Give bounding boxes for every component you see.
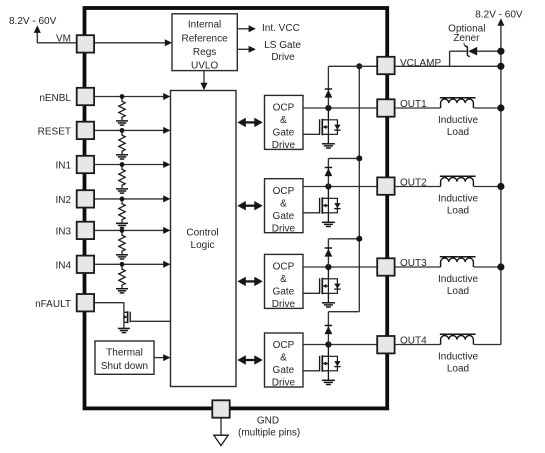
transistor Q3 low-side FET: [327, 267, 329, 279]
pin VM: [77, 35, 94, 52]
svg-text:UVLO: UVLO: [191, 60, 218, 71]
wire OCP ch2 to OUT2 pin: [303, 186, 377, 188]
body diode of Q1: [328, 120, 337, 135]
wire RESET pin to Control Logic: [94, 129, 166, 131]
node rail branch ch2: [356, 155, 362, 161]
ground for nFAULT FET: [118, 327, 130, 329]
svg-text:Drive: Drive: [272, 223, 296, 234]
arrow Internal Reference to Int. VCC: [237, 28, 250, 30]
ground for Q4 source: [322, 379, 335, 381]
pin IN4: [77, 256, 94, 273]
wire VM pin to Internal Reference Regs: [94, 42, 165, 44]
pin IN2: [77, 190, 94, 207]
block: OCP & Gate Drive channel 2: [265, 179, 304, 233]
wire load ch2 to right rail: [474, 186, 501, 188]
transistor Q1 low-side FET: [327, 108, 329, 120]
wire OUT2 to inductive load: [395, 186, 441, 188]
svg-text:OUT1: OUT1: [400, 99, 427, 110]
wire OCP ch1 to FET gate: [303, 133, 320, 135]
pull-down resistor on nENBL: [119, 97, 125, 121]
body diode of Q4: [328, 356, 337, 371]
wire Q4 source to ground: [327, 371, 329, 380]
node OUT2 internal junction: [325, 183, 331, 189]
wire nENBL pin to Control Logic: [94, 96, 166, 98]
wire supply to VM with up arrow: [36, 32, 38, 43]
wire IN4 pin to Control Logic: [94, 263, 166, 265]
wire IN2 pin to Control Logic: [94, 198, 166, 200]
wire right supply rail with up arrow: [497, 18, 504, 26]
block: Internal Reference Regs UVLO: [172, 14, 237, 71]
svg-text:Inductive: Inductive: [438, 274, 478, 285]
wire IN1 pin to Control Logic: [94, 164, 166, 166]
bidirectional arrow Control Logic / OCP channel 2: [243, 205, 257, 207]
svg-text:OUT4: OUT4: [400, 336, 427, 347]
ground for RESET resistor: [116, 154, 128, 156]
node rail branch ch3: [356, 236, 362, 242]
svg-text:Inductive: Inductive: [438, 352, 478, 363]
node IN2 junction: [120, 197, 125, 202]
node load ch3 / rail: [497, 263, 504, 270]
svg-text:RESET: RESET: [38, 127, 71, 138]
pull-down resistor on IN2: [119, 199, 125, 223]
wire OCP ch3 to OUT3 pin: [303, 266, 377, 268]
pin GND: [212, 400, 229, 417]
svg-text:8.2V - 60V: 8.2V - 60V: [475, 10, 523, 21]
svg-text:Gate: Gate: [273, 128, 295, 139]
pin IN1: [77, 156, 94, 173]
ground for IN3 resistor: [116, 254, 128, 256]
wire VCLAMP pin to right rail: [395, 65, 501, 67]
wire Q3 source to ground: [327, 293, 329, 302]
node nENBL junction: [120, 94, 125, 99]
wire Q2 source to ground: [327, 213, 329, 222]
wire VCLAMP rail branch ch4: [328, 311, 359, 313]
wire GND pin down: [220, 418, 222, 436]
svg-text:8.2V - 60V: 8.2V - 60V: [9, 16, 57, 27]
wire Control Logic to nFAULT FET gate: [130, 320, 170, 322]
svg-text:Int. VCC: Int. VCC: [262, 23, 300, 34]
node load ch2 / rail: [497, 183, 504, 190]
block: OCP & Gate Drive channel 3: [265, 254, 304, 308]
svg-text:Zener: Zener: [453, 33, 480, 44]
node OUT1 internal junction: [325, 105, 331, 111]
svg-text:OCP: OCP: [273, 103, 295, 114]
block: OCP & Gate Drive channel 4: [265, 333, 304, 387]
svg-text:OUT3: OUT3: [400, 258, 427, 269]
pin RESET: [77, 122, 94, 139]
svg-text:Reference: Reference: [182, 33, 229, 44]
ground for IN4 resistor: [116, 288, 128, 290]
node OUT4 internal junction: [325, 341, 331, 347]
inductor L3: [441, 258, 474, 267]
svg-text:Gate: Gate: [273, 365, 295, 376]
svg-text:&: &: [280, 274, 287, 285]
svg-text:Drive: Drive: [272, 378, 296, 389]
block: Control Logic: [171, 91, 237, 387]
inductor L2: [441, 178, 474, 187]
pin OUT3: [377, 258, 394, 275]
bidirectional arrow Control Logic / OCP channel 1: [243, 121, 257, 123]
node rail at VCLAMP line: [356, 63, 362, 69]
wire OCP ch2 to FET gate: [303, 212, 320, 214]
body diode of Q3: [328, 279, 337, 294]
svg-text:OUT2: OUT2: [400, 178, 427, 189]
inductor L1: [441, 99, 474, 108]
diode D2 symbol: [325, 167, 332, 169]
pin VCLAMP: [377, 57, 394, 74]
svg-text:OCP: OCP: [273, 262, 295, 273]
wire load ch1 to right rail: [474, 107, 501, 109]
svg-text:Inductive: Inductive: [438, 115, 478, 126]
wire zener branch: [449, 51, 451, 66]
ground for Q2 source: [322, 221, 335, 223]
wire load ch3 to right rail: [474, 266, 501, 268]
pull-down resistor on IN4: [119, 264, 125, 288]
pin IN3: [77, 222, 94, 239]
node VCLAMP / rail: [497, 63, 504, 70]
node IN3 junction: [120, 228, 125, 233]
svg-text:IN2: IN2: [55, 195, 71, 206]
svg-text:Load: Load: [447, 127, 469, 138]
wire nFAULT FET source to ground: [123, 322, 125, 328]
wire Q1 source to ground: [327, 134, 329, 143]
wire nFAULT pin to open-drain FET: [94, 302, 124, 304]
ground for IN2 resistor: [116, 222, 128, 224]
block: OCP & Gate Drive channel 1: [265, 95, 304, 149]
wire VCLAMP line inside: [328, 65, 377, 67]
svg-text:Control: Control: [186, 228, 218, 239]
diode D3 symbol: [325, 247, 332, 249]
svg-text:IN1: IN1: [55, 161, 71, 172]
svg-text:OCP: OCP: [273, 186, 295, 197]
arrow Internal Reference to Control Logic: [203, 71, 205, 85]
pin nFAULT: [77, 294, 94, 311]
block: Thermal Shut down: [95, 341, 154, 374]
pin nENBL: [77, 88, 94, 105]
svg-text:LS Gate: LS Gate: [264, 40, 301, 51]
inductor L4: [441, 336, 474, 345]
wire OUT4 to inductive load: [395, 344, 441, 346]
wire OCP ch1 to OUT1 pin: [303, 107, 377, 109]
svg-text:&: &: [280, 198, 287, 209]
ground for Q1 source: [322, 143, 335, 145]
svg-text:Thermal: Thermal: [106, 348, 143, 359]
wire VCLAMP rail branch ch3: [328, 238, 359, 240]
svg-text:IN4: IN4: [55, 261, 71, 272]
svg-text:Load: Load: [447, 364, 469, 375]
svg-text:VCLAMP: VCLAMP: [400, 58, 441, 69]
ground for nENBL resistor: [116, 120, 128, 122]
svg-text:VM: VM: [56, 34, 71, 45]
svg-text:OCP: OCP: [273, 340, 295, 351]
svg-text:Gate: Gate: [273, 211, 295, 222]
transistor Q5 nFAULT open-drain FET: [123, 312, 125, 322]
IC device outline U1: [85, 8, 388, 408]
svg-text:Drive: Drive: [271, 52, 295, 63]
svg-text:Inductive: Inductive: [438, 194, 478, 205]
svg-text:Load: Load: [447, 286, 469, 297]
ground for Q3 source: [322, 302, 335, 304]
wire OCP ch4 to OUT4 pin: [303, 344, 377, 346]
svg-text:(multiple pins): (multiple pins): [238, 427, 300, 438]
pin OUT1: [377, 99, 394, 116]
wire IN3 pin to Control Logic: [94, 229, 166, 231]
ground symbol (chassis) for GND pin: [214, 435, 228, 445]
wire OCP ch4 to FET gate: [303, 370, 320, 372]
arrow Thermal Shut down to Control Logic: [154, 357, 166, 359]
diode D4 symbol: [325, 325, 332, 327]
arrow Internal Reference to LS Gate Drive: [237, 48, 250, 50]
wire VCLAMP rail branch ch2: [328, 157, 359, 159]
node OUT3 internal junction: [325, 264, 331, 270]
zener diode DZ: [468, 47, 477, 56]
bidirectional arrow Control Logic / OCP channel 3: [243, 280, 257, 282]
svg-text:Shut down: Shut down: [101, 361, 148, 372]
svg-text:GND: GND: [257, 416, 279, 427]
svg-text:Drive: Drive: [272, 299, 296, 310]
wire VCLAMP internal rail: [358, 66, 360, 311]
node IN4 junction: [120, 262, 125, 267]
transistor Q2 low-side FET: [327, 187, 329, 199]
node IN1 junction: [120, 162, 125, 167]
wire OUT1 to inductive load: [395, 107, 441, 109]
pull-down resistor on IN1: [119, 165, 125, 189]
diode D1 symbol: [325, 88, 332, 90]
flyback diode D1 to VCLAMP rail: [327, 66, 329, 108]
svg-text:&: &: [280, 115, 287, 126]
pull-down resistor on RESET: [119, 130, 125, 154]
svg-text:IN3: IN3: [55, 227, 71, 238]
wire OCP ch3 to FET gate: [303, 292, 320, 294]
svg-text:nFAULT: nFAULT: [35, 299, 71, 310]
wire load ch4 to right rail: [474, 344, 501, 346]
svg-text:Internal: Internal: [188, 20, 221, 31]
leader line from Zener label: [464, 43, 468, 48]
bidirectional arrow Control Logic / OCP channel 4: [243, 359, 257, 361]
svg-text:Gate: Gate: [273, 287, 295, 298]
node zener / rail: [497, 48, 504, 55]
svg-text:Logic: Logic: [191, 240, 215, 251]
transistor Q4 low-side FET: [327, 345, 329, 357]
svg-text:Regs: Regs: [193, 47, 216, 58]
wire OUT3 to inductive load: [395, 266, 441, 268]
svg-text:Load: Load: [447, 206, 469, 217]
ground for IN1 resistor: [116, 188, 128, 190]
body diode of Q2: [328, 198, 337, 213]
node RESET junction: [120, 128, 125, 133]
svg-text:nENBL: nENBL: [39, 93, 71, 104]
svg-text:&: &: [280, 353, 287, 364]
node load ch1 / rail: [497, 104, 504, 111]
pin OUT2: [377, 177, 394, 194]
pull-down resistor on IN3: [119, 230, 125, 254]
svg-text:Drive: Drive: [272, 140, 296, 151]
pin OUT4: [377, 336, 394, 353]
